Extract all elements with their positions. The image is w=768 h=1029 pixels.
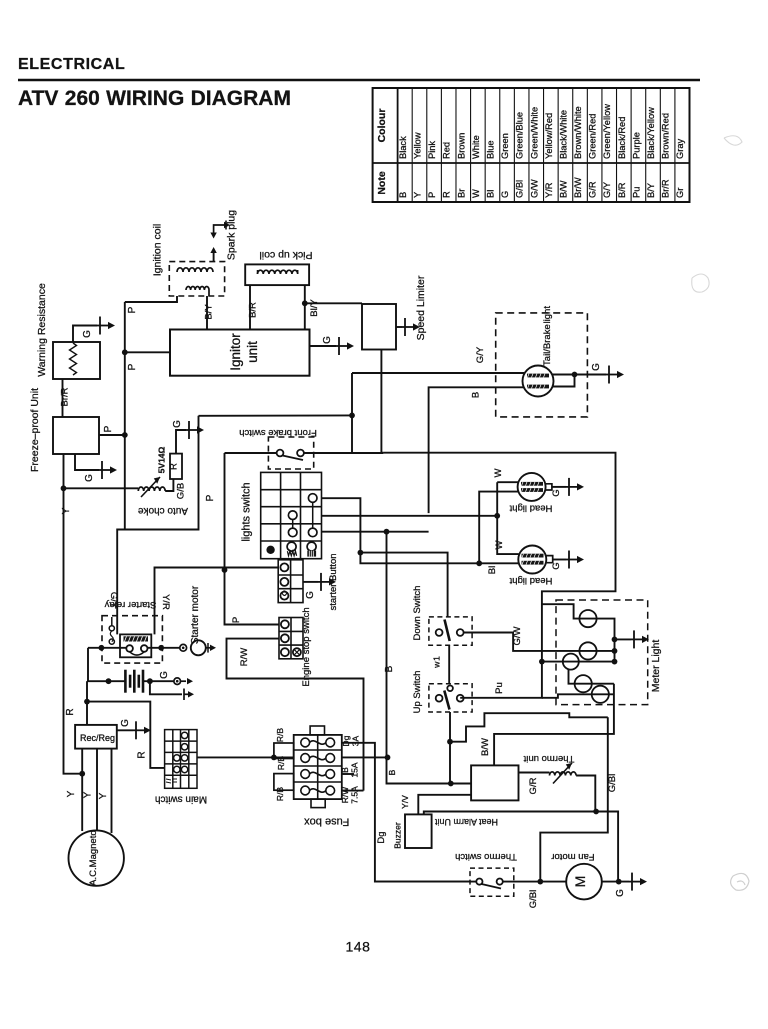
- ground G warming resistance: [97, 317, 115, 335]
- wire ignition coil secondary to B/Y: [208, 290, 210, 296]
- ground G headlight upper: [566, 478, 584, 496]
- starter motor terminal: [180, 644, 187, 651]
- svg-text:Up Switch: Up Switch: [412, 671, 423, 714]
- meter bulb 5: [592, 686, 609, 703]
- fuse box bottom tab: [311, 799, 325, 808]
- wire relay to battery: [87, 648, 89, 681]
- ground meter light: [631, 630, 649, 648]
- svg-text:Green/Yellow: Green/Yellow: [602, 104, 612, 159]
- svg-text:Y: Y: [61, 507, 72, 514]
- svg-text:Red: Red: [442, 142, 452, 159]
- wire speed limiter bottom to headlight bus: [381, 350, 383, 453]
- wire relay main horizontal: [88, 647, 126, 649]
- starter relay terminals: [126, 645, 133, 652]
- svg-text:Thermo unit: Thermo unit: [523, 753, 574, 764]
- ground G ignitor: [336, 337, 354, 355]
- svg-text:B: B: [384, 665, 395, 672]
- svg-text:P: P: [103, 425, 114, 432]
- wire Y/R relay to starter button: [155, 568, 225, 635]
- svg-text:Heat Alarm Unit: Heat Alarm Unit: [434, 817, 498, 827]
- smudges: [724, 136, 742, 145]
- svg-text:Pu: Pu: [494, 682, 505, 694]
- lights switch lamp cell col3 block: [307, 542, 316, 551]
- wire G/Y vertical branch: [351, 373, 353, 453]
- starter relay coil box: [120, 634, 151, 657]
- svg-text:Auto choke: Auto choke: [138, 505, 188, 516]
- battery BT1: [125, 670, 143, 693]
- wire Bl/Y pickup right: [304, 285, 306, 330]
- svg-text:Black: Black: [398, 136, 408, 159]
- wire B vertical from lights switch: [387, 532, 451, 784]
- wire R/W engine stop: [227, 639, 364, 791]
- svg-text:Speed Limiter: Speed Limiter: [415, 275, 427, 340]
- svg-text:Spark plug: Spark plug: [226, 210, 238, 260]
- ground G headlight lower: [566, 551, 584, 569]
- wire fuse B 15A output: [342, 756, 388, 758]
- svg-text:B: B: [340, 767, 350, 773]
- svg-text:Br/R: Br/R: [60, 387, 71, 406]
- wire tail bulb to ground: [552, 374, 606, 376]
- svg-text:Green: Green: [500, 133, 510, 159]
- wire front brake to speed-limiter corner: [304, 452, 383, 454]
- svg-text:Dg: Dg: [341, 735, 351, 746]
- lights switch lamp cell col2 spring: [287, 542, 296, 551]
- thermo unit coil RT1: [550, 772, 577, 776]
- svg-text:ATV 260 WIRING DIAGRAM: ATV 260 WIRING DIAGRAM: [18, 87, 291, 110]
- svg-text:Br: Br: [456, 189, 466, 198]
- svg-text:P: P: [427, 192, 437, 198]
- speed limiter box: [362, 304, 396, 350]
- wire headlight lower to ground: [546, 556, 553, 563]
- svg-text:Black/Yellow: Black/Yellow: [646, 107, 656, 159]
- meter bulb 3: [563, 654, 579, 670]
- engine stop switch grid SW4: [279, 618, 303, 659]
- wire buzzer to thermo junction: [424, 812, 618, 882]
- svg-text:Black/White: Black/White: [558, 110, 568, 159]
- svg-text:White: White: [471, 135, 481, 159]
- auto choke coil RT2: [138, 487, 165, 491]
- resistor 5V14 R2: [170, 454, 182, 479]
- wire fuse row4 R/W stub: [342, 790, 364, 792]
- junction dot row3: [494, 513, 500, 519]
- wire fuse row3 stub: [342, 773, 354, 775]
- fuse box left connector blocks R/B: [274, 743, 294, 759]
- svg-text:P: P: [205, 494, 216, 501]
- svg-text:G: G: [551, 489, 562, 496]
- fuse symbols: [301, 738, 310, 747]
- front brake switch dashed box: [268, 437, 313, 469]
- wire Br/R warming-res to freeze-proof: [62, 379, 64, 417]
- wire thermo coil to G/Bl junction: [576, 776, 595, 812]
- junction dot P freeze: [122, 432, 128, 438]
- wire G/Y relay up: [117, 416, 198, 635]
- spark plug symbol and wire: [213, 249, 215, 262]
- wires rec/reg to magneto Y Y Y: [81, 749, 83, 831]
- wire to fan motor: [540, 881, 566, 883]
- svg-text:Y/R: Y/R: [544, 182, 554, 198]
- wire auto choke to resistor: [165, 479, 173, 491]
- wire steps to up-switch line: [450, 713, 608, 742]
- ignitor unit box U1: [170, 330, 310, 376]
- wire R to main switch: [87, 702, 165, 768]
- svg-text:Brown/Red: Brown/Red: [661, 113, 671, 159]
- wire fuse Dg 3A output: [342, 743, 470, 882]
- svg-text:B: B: [387, 769, 397, 775]
- svg-text:Front brake switch: Front brake switch: [239, 427, 317, 438]
- svg-text:G: G: [551, 562, 562, 569]
- freeze-proof unit box: [53, 417, 99, 454]
- lights switch grid SW2: [261, 472, 322, 558]
- svg-text:Bl/Y: Bl/Y: [309, 299, 320, 317]
- svg-text:Y: Y: [66, 790, 77, 797]
- svg-text:148: 148: [346, 939, 371, 955]
- wire meter row3: [542, 661, 615, 663]
- svg-text:R/W: R/W: [340, 787, 350, 804]
- wire freeze-proof right P: [99, 434, 125, 436]
- svg-text:R/B: R/B: [275, 787, 285, 802]
- buzzer box H1: [405, 814, 432, 848]
- junction dot thermo: [593, 809, 599, 815]
- svg-text:G/Bl: G/Bl: [515, 180, 525, 198]
- wire G/Bl meter to thermo switch: [540, 717, 608, 881]
- svg-text:Brown: Brown: [456, 133, 466, 159]
- pick up coil box: [245, 264, 309, 285]
- head light bulb lower L3: [518, 546, 546, 574]
- wire meter ground: [615, 638, 632, 640]
- svg-text:w 1: w 1: [432, 656, 442, 669]
- svg-text:G: G: [159, 671, 170, 679]
- wire meter bulb5: [542, 694, 614, 698]
- svg-text:G: G: [500, 191, 510, 198]
- svg-text:unit: unit: [245, 341, 260, 363]
- svg-text:G/B: G/B: [176, 483, 187, 499]
- wire Y to auto choke: [64, 487, 139, 489]
- wire up switch down to heat alarm: [449, 712, 451, 784]
- header rule: [18, 79, 700, 81]
- wire Y/V buzzer to heat alarm: [418, 795, 471, 815]
- starter motor arrow: [206, 647, 210, 649]
- ground speed limiter: [402, 318, 420, 336]
- fuse box body F1-F4: [294, 735, 342, 799]
- svg-text:Y/V: Y/V: [400, 795, 410, 809]
- heat alarm unit box U3: [471, 765, 518, 800]
- svg-text:G/Y: G/Y: [602, 182, 612, 198]
- svg-text:Ignition coil: Ignition coil: [152, 224, 164, 277]
- meter light dashed box: [556, 600, 648, 705]
- wire starter button feed: [225, 567, 279, 569]
- wire main switch to fuse box: [197, 756, 294, 758]
- svg-text:R/B: R/B: [275, 728, 285, 743]
- svg-text:B/Y: B/Y: [204, 304, 215, 320]
- junction dot meter feed: [539, 659, 545, 665]
- ground G starter button: [318, 573, 336, 591]
- svg-text:G/R: G/R: [588, 181, 598, 198]
- ground G fan motor: [629, 873, 647, 891]
- svg-text:Note: Note: [376, 171, 388, 194]
- svg-text:B/R: B/R: [248, 302, 259, 318]
- svg-text:W: W: [471, 189, 481, 198]
- wire battery right to ground: [143, 680, 174, 682]
- svg-text:Y: Y: [83, 791, 94, 798]
- svg-text:G: G: [615, 889, 626, 897]
- wire P to ignitor unit: [125, 351, 170, 353]
- ignition coil primary winding: [177, 268, 213, 272]
- starter button grid SW3: [278, 560, 303, 603]
- wire B feed to heat alarm: [451, 783, 471, 785]
- wire freeze-proof bottom to ground: [75, 454, 99, 470]
- wire ignitor to ground right: [310, 345, 337, 347]
- up switch dashed box SW7: [429, 684, 472, 712]
- svg-text:G: G: [172, 420, 183, 428]
- wire warming-res top to ground: [73, 326, 97, 343]
- svg-text:G: G: [120, 719, 131, 727]
- down switch dashed box SW6: [429, 617, 472, 645]
- wire bulb1 lower-lead: [479, 492, 518, 564]
- wire rec/reg ground: [117, 729, 133, 731]
- svg-text:Green/White: Green/White: [529, 107, 539, 159]
- battery ground terminal: [174, 678, 181, 685]
- svg-text:G: G: [305, 591, 316, 599]
- junction dot starter feed: [222, 567, 228, 573]
- wire meter bulb1 feed: [542, 604, 615, 661]
- starter relay contact points: [109, 626, 114, 631]
- thermo switch dashed box SW8: [470, 868, 514, 896]
- svg-text:Blue: Blue: [485, 140, 495, 159]
- svg-text:R: R: [169, 463, 180, 470]
- svg-text:Bl: Bl: [487, 566, 498, 574]
- svg-text:Y: Y: [98, 792, 109, 799]
- ground G resistor: [186, 421, 204, 439]
- wire B/R pickup to ignitor: [249, 285, 251, 330]
- wire lights row4 bus: [322, 531, 429, 533]
- svg-text:lights switch: lights switch: [241, 482, 253, 541]
- svg-text:B: B: [471, 392, 482, 398]
- wire headlight upper to ground: [545, 484, 552, 490]
- head light bulb upper L2: [518, 473, 546, 501]
- svg-text:P: P: [127, 363, 138, 370]
- wire battery aux ground: [150, 681, 182, 694]
- svg-text:Ignitor: Ignitor: [228, 333, 243, 371]
- svg-text:P: P: [127, 306, 138, 313]
- svg-text:Dg: Dg: [376, 831, 387, 843]
- svg-text:G/W: G/W: [529, 179, 539, 198]
- svg-text:B/R: B/R: [617, 182, 627, 198]
- ground G rec/reg: [133, 721, 151, 739]
- junction dot Bl/Y: [302, 300, 308, 306]
- wire Bl/Y to speed limiter: [305, 302, 362, 304]
- svg-text:Br/R: Br/R: [661, 179, 671, 198]
- lights switch contact circles: [308, 494, 317, 503]
- svg-text:G/R: G/R: [528, 777, 539, 794]
- svg-text:G/W: G/W: [512, 626, 523, 645]
- svg-text:5V14Ω: 5V14Ω: [157, 446, 167, 473]
- meter bulb 1: [579, 610, 596, 627]
- wire thermo switch row: [375, 881, 476, 883]
- junction dot P ignitor: [122, 349, 128, 355]
- svg-text:7.5A: 7.5A: [350, 786, 360, 804]
- svg-text:R/B: R/B: [276, 756, 286, 771]
- wire battery to rec/reg: [86, 681, 88, 725]
- svg-text:Colour: Colour: [376, 109, 388, 143]
- svg-text:Gr: Gr: [675, 188, 685, 198]
- svg-text:Warning Resistance: Warning Resistance: [36, 283, 48, 377]
- svg-text:15A: 15A: [350, 762, 360, 777]
- wire G/Y to tail light: [352, 372, 524, 374]
- svg-text:Starter motor: Starter motor: [190, 585, 201, 644]
- wire B/Y ignition coil to ignitor: [206, 296, 208, 330]
- svg-text:P: P: [231, 617, 242, 623]
- svg-text:G: G: [84, 474, 95, 482]
- wire meter bulb4: [569, 670, 614, 684]
- wire headlight leads vertical: [497, 481, 518, 483]
- svg-text:Purple: Purple: [631, 132, 641, 159]
- svg-text:R/W: R/W: [239, 648, 250, 667]
- svg-text:G: G: [591, 363, 602, 371]
- wire Y long left vertical: [64, 454, 83, 774]
- svg-text:B/W: B/W: [558, 180, 568, 198]
- svg-text:G: G: [82, 330, 93, 338]
- svg-text:ELECTRICAL: ELECTRICAL: [18, 56, 125, 73]
- svg-text:Freeze–proof Unit: Freeze–proof Unit: [29, 388, 41, 472]
- svg-text:Green/Blue: Green/Blue: [515, 112, 525, 159]
- svg-text:Thermo switch: Thermo switch: [455, 851, 517, 862]
- ignition coil dashed box T1: [169, 262, 224, 296]
- ground G tail light: [606, 366, 624, 384]
- svg-text:Yellow/Red: Yellow/Red: [544, 113, 554, 159]
- junction dots relay: [99, 645, 105, 651]
- svg-text:Meter Light: Meter Light: [650, 640, 662, 693]
- svg-text:Tail/Brake light: Tail/Brake light: [542, 306, 553, 366]
- svg-text:G/Y: G/Y: [475, 346, 486, 363]
- wire headlight bus top: [383, 453, 615, 698]
- svg-text:Pu: Pu: [631, 187, 641, 198]
- main switch grid SW5: [165, 730, 197, 789]
- svg-text:Yellow: Yellow: [412, 132, 422, 159]
- A.C.Magneto G1: [69, 830, 124, 885]
- wire front brake feed: [225, 452, 277, 454]
- ignition coil secondary winding: [186, 287, 209, 291]
- wire B to tail light: [429, 387, 524, 513]
- junction dot G/Bl fan: [537, 879, 543, 885]
- svg-text:Head light: Head light: [509, 503, 552, 514]
- svg-text:A.C.Magneto: A.C.Magneto: [88, 830, 99, 885]
- svg-text:Gray: Gray: [675, 139, 685, 159]
- wire lights row3 bus: [322, 515, 498, 517]
- svg-text:B/Y: B/Y: [646, 183, 656, 198]
- wire G/W down switch to meter: [464, 633, 615, 651]
- wire lights row5 to down switch: [360, 553, 447, 617]
- svg-text:Pick up coil: Pick up coil: [259, 249, 312, 261]
- svg-text:Y: Y: [412, 192, 422, 198]
- tail brakelight dashed box: [496, 313, 588, 417]
- svg-text:R: R: [65, 708, 76, 715]
- svg-text:Main switch: Main switch: [155, 794, 207, 805]
- wire resistor to ground: [176, 430, 186, 454]
- wire P vertical main: [124, 302, 126, 530]
- svg-text:G/Bl: G/Bl: [607, 774, 618, 792]
- wire speed limiter right ground: [396, 326, 402, 328]
- svg-text:3A: 3A: [351, 735, 361, 746]
- front brake switch contacts S1: [277, 450, 284, 457]
- rec/reg box U2: [75, 725, 117, 749]
- svg-text:G/Bl: G/Bl: [528, 890, 539, 908]
- svg-text:Green/Red: Green/Red: [588, 114, 598, 159]
- starter motor M1: [191, 640, 206, 655]
- wire P vertical to engine stop: [225, 453, 280, 625]
- svg-text:W: W: [494, 540, 505, 549]
- wire battery left: [87, 680, 125, 682]
- fan motor M2: [566, 864, 602, 900]
- svg-text:Pink: Pink: [427, 141, 437, 159]
- lights switch indicator dot: [266, 546, 274, 554]
- junction dot G/Y branch: [349, 413, 355, 419]
- svg-text:Bl: Bl: [485, 190, 495, 198]
- svg-text:Brown/White: Brown/White: [573, 106, 583, 159]
- fuse box top tab: [310, 726, 324, 735]
- svg-text:B: B: [398, 192, 408, 198]
- svg-text:W: W: [493, 468, 504, 477]
- svg-text:Head light: Head light: [509, 575, 552, 586]
- wire fan motor to ground: [602, 881, 629, 883]
- svg-text:R: R: [137, 751, 148, 758]
- wire lights row2 to lower headlight: [322, 498, 519, 563]
- wire P top to ignition coil: [125, 296, 177, 302]
- svg-text:Fuse box: Fuse box: [304, 816, 350, 828]
- meter bulb 4: [575, 675, 592, 692]
- svg-text:Fan motor: Fan motor: [551, 851, 594, 862]
- svg-text:B/W: B/W: [480, 738, 491, 756]
- svg-text:Buzzer: Buzzer: [393, 822, 403, 849]
- svg-text:G: G: [322, 336, 333, 344]
- svg-text:Black/Red: Black/Red: [617, 117, 627, 159]
- junction dots meter bus: [612, 637, 618, 643]
- colour legend table: [373, 88, 690, 202]
- svg-text:R: R: [442, 191, 452, 198]
- tail light bulb L1: [523, 366, 554, 397]
- svg-text:Down Switch: Down Switch: [412, 586, 423, 641]
- wire heat alarm to thermo coil: [519, 772, 550, 774]
- meter bulb 2 on G/W line: [579, 642, 596, 659]
- svg-text:M: M: [572, 876, 588, 888]
- pick up coil winding: [258, 270, 298, 274]
- wire starter button ground: [303, 581, 318, 583]
- svg-text:Rec/Reg: Rec/Reg: [80, 733, 115, 743]
- starter relay dashed box K1: [102, 616, 162, 663]
- svg-text:Br/W: Br/W: [573, 177, 583, 198]
- ground G freeze-proof: [99, 461, 117, 479]
- warming resistance box R1: [53, 342, 100, 379]
- junction dot row2 bulb1: [476, 560, 482, 566]
- svg-text:Y/R: Y/R: [160, 594, 171, 610]
- wire B/W heat alarm to meter: [494, 684, 614, 766]
- wire between up and down switch: [448, 645, 450, 684]
- wire branch left y415: [199, 414, 353, 416]
